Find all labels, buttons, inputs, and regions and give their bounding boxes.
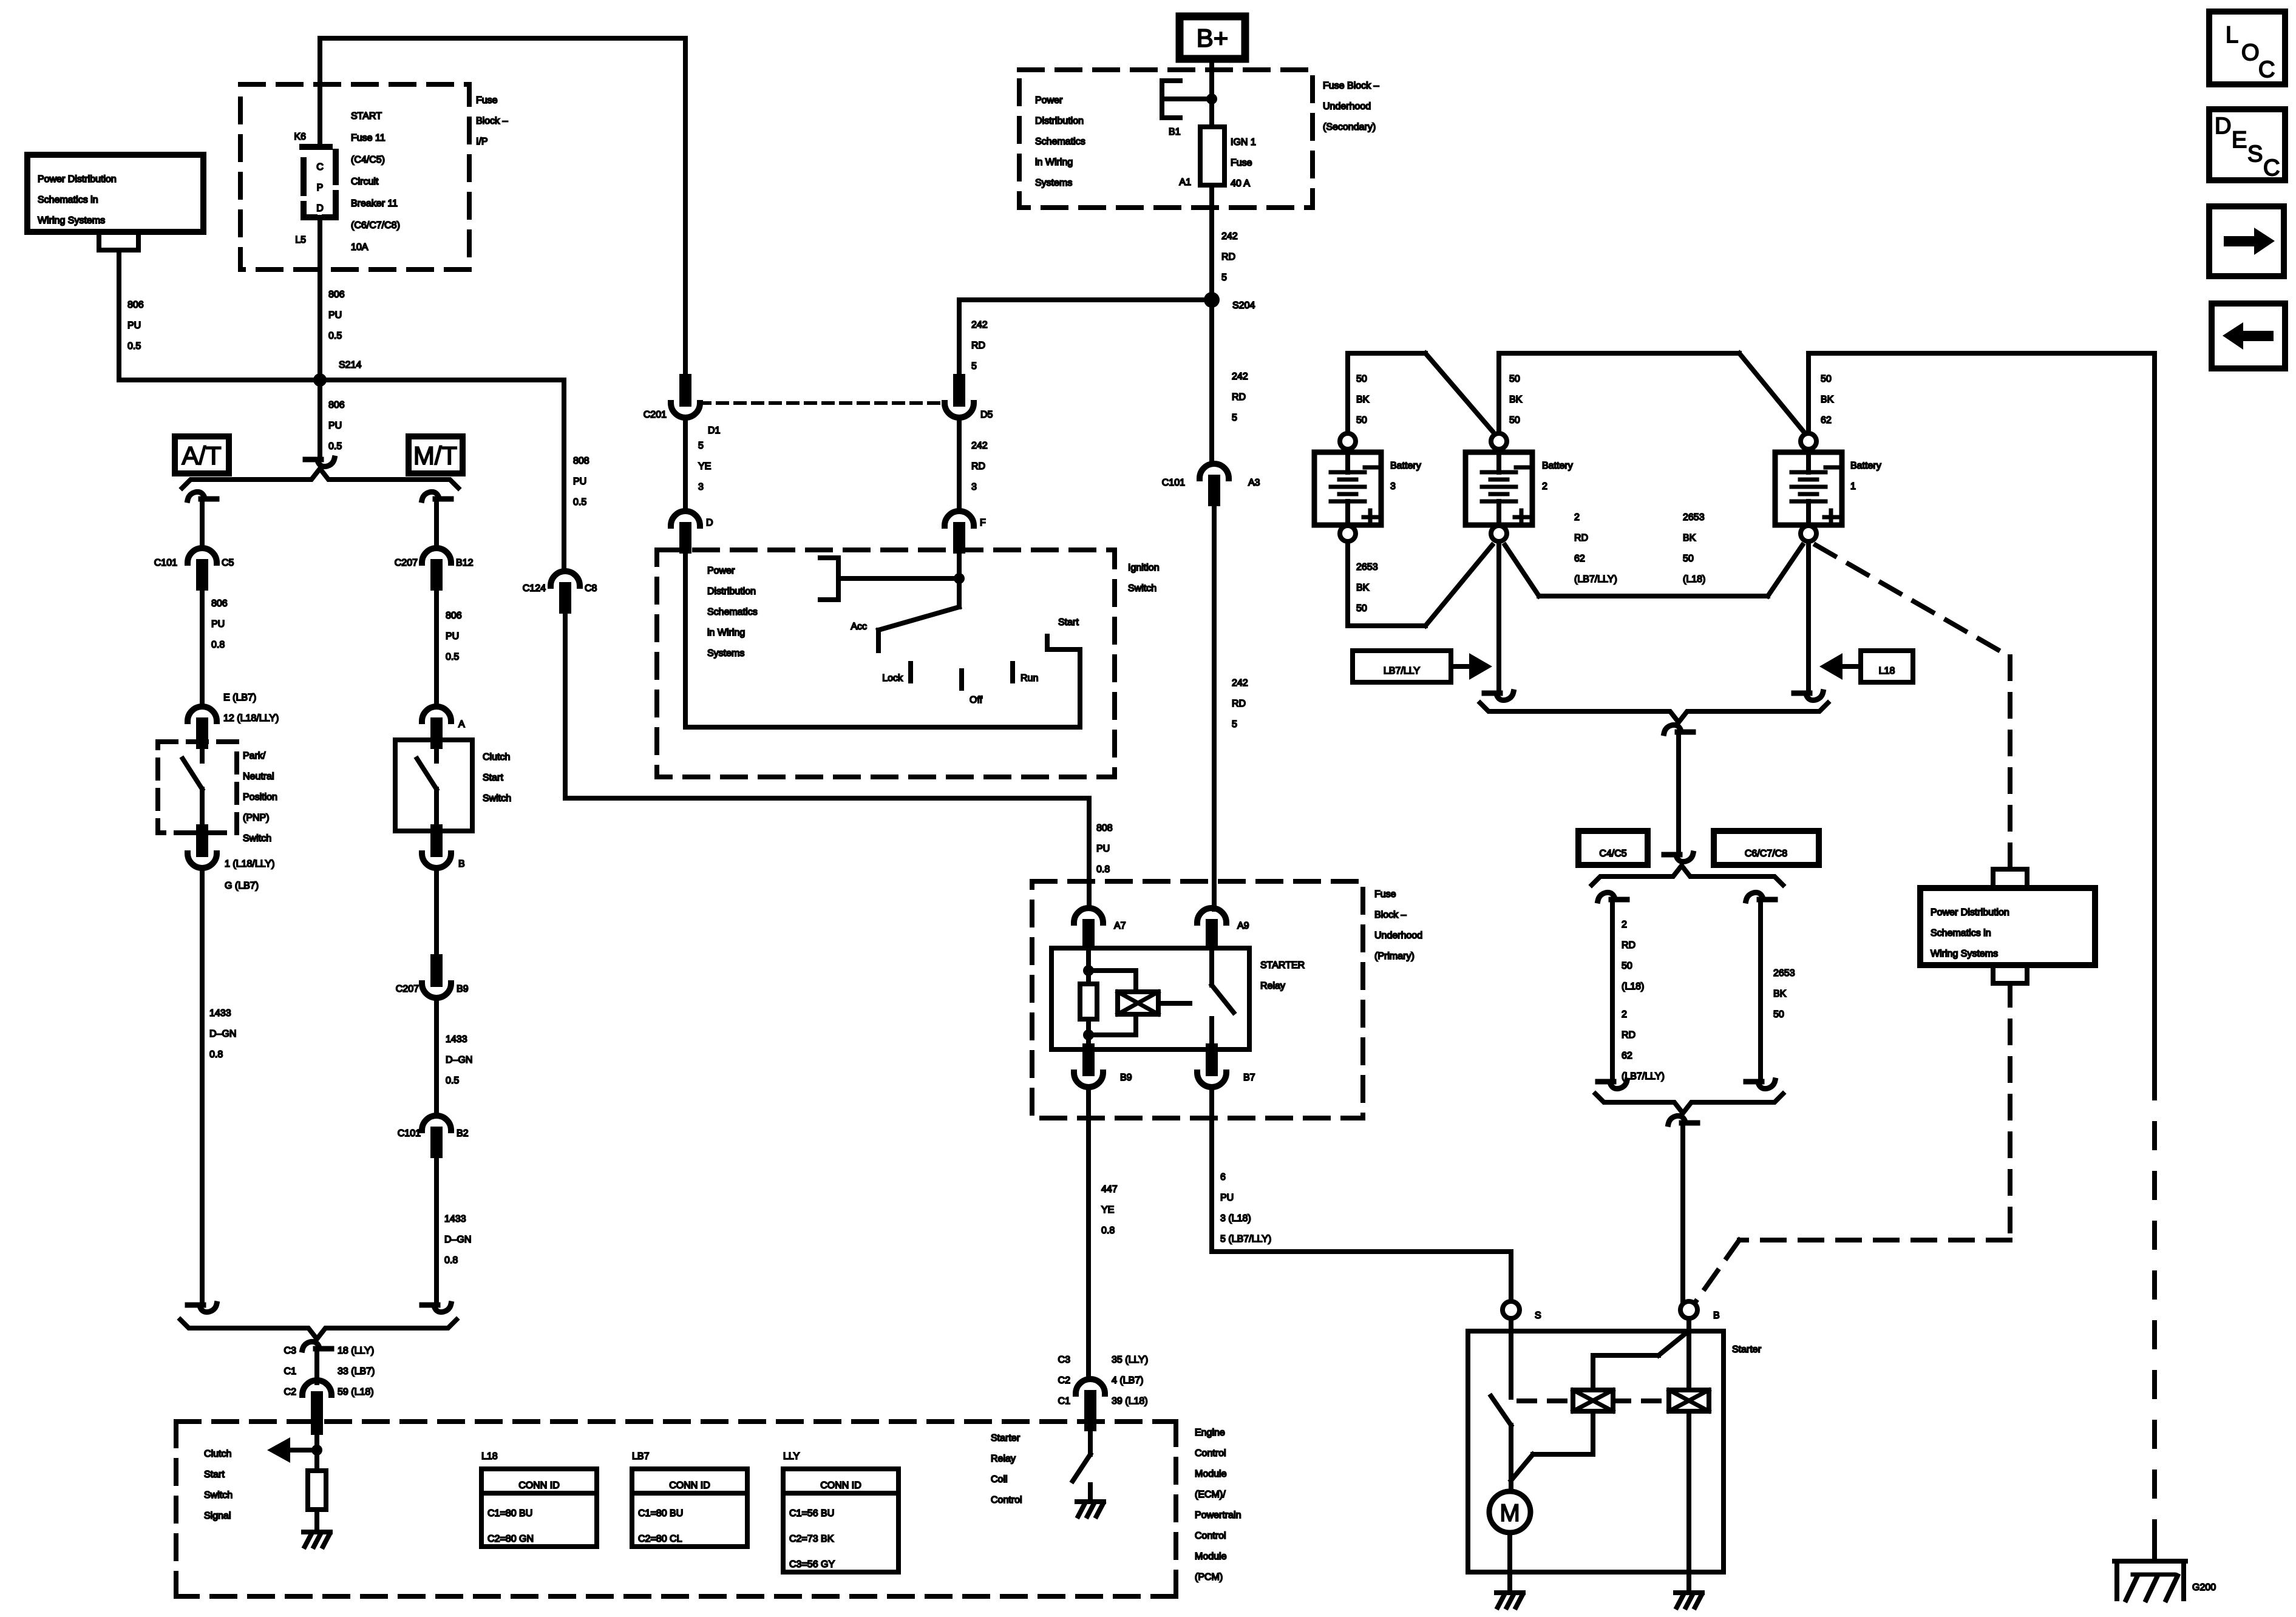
- svg-text:Circuit: Circuit: [351, 177, 379, 187]
- svg-text:Block –: Block –: [476, 116, 508, 126]
- connector pin E (LB7) / 12 (L18/LLY): [188, 707, 217, 721]
- svg-text:(L18): (L18): [1622, 981, 1644, 992]
- svg-text:Systems: Systems: [707, 648, 744, 659]
- wire: battery feed to C4/C5-C6/C7/C8 split: [1676, 734, 1681, 852]
- svg-text:C5: C5: [222, 558, 234, 568]
- wire: 808 PU 0.5 from S214 to C124 C8: [320, 380, 564, 571]
- svg-text:0.5: 0.5: [573, 497, 586, 507]
- svg-text:59 (L18): 59 (L18): [338, 1387, 374, 1397]
- svg-text:START: START: [351, 111, 382, 121]
- svg-text:LB7: LB7: [632, 1451, 650, 1462]
- svg-text:Power: Power: [1035, 95, 1063, 106]
- svg-text:50: 50: [1683, 554, 1694, 564]
- svg-text:Battery: Battery: [1390, 461, 1421, 471]
- svg-text:YE: YE: [1101, 1205, 1114, 1215]
- wire: 1433 D-GN 0.8 PNP to ECM brace: [200, 867, 205, 1303]
- svg-text:Schematics: Schematics: [1035, 137, 1085, 147]
- svg-text:5: 5: [1232, 413, 1237, 423]
- svg-text:5: 5: [1221, 273, 1227, 283]
- svg-text:6: 6: [1220, 1172, 1226, 1182]
- svg-text:B2: B2: [457, 1128, 469, 1139]
- svg-text:C1: C1: [284, 1366, 297, 1377]
- svg-text:PU: PU: [127, 320, 141, 331]
- svg-text:Module: Module: [1195, 1551, 1227, 1562]
- svg-text:50: 50: [1356, 374, 1367, 384]
- svg-text:IGN 1: IGN 1: [1231, 137, 1256, 147]
- svg-text:242: 242: [971, 441, 988, 451]
- connector C207 pin B12: [422, 548, 451, 563]
- svg-text:A3: A3: [1248, 478, 1260, 488]
- wire: top bus from fuse block I/P to connector C201 D1: [320, 38, 685, 381]
- arrow: L18 points to battery 1 wire: [1843, 664, 1861, 669]
- svg-text:B12: B12: [456, 558, 474, 568]
- connector C201 pin D1: [679, 380, 691, 401]
- svg-text:Battery: Battery: [1850, 461, 1881, 471]
- curl: A/T branch wire end at join brace: [188, 1304, 217, 1312]
- svg-text:2653: 2653: [1773, 968, 1795, 978]
- connector pin B7: [1206, 1049, 1218, 1070]
- wire: 806 PU 0.8 to PNP switch: [200, 585, 205, 707]
- svg-text:Control: Control: [991, 1495, 1022, 1505]
- battery 2: [1466, 433, 1532, 541]
- svg-text:Distribution: Distribution: [707, 586, 756, 597]
- box: LB7/LLY tag: [1353, 651, 1451, 682]
- svg-text:3: 3: [971, 482, 977, 492]
- svg-text:CONN ID: CONN ID: [518, 1480, 560, 1491]
- wire: clutch start switch signal inside ECM: [314, 1428, 319, 1450]
- svg-text:Schematics in: Schematics in: [1931, 928, 1991, 938]
- svg-text:Signal: Signal: [204, 1511, 231, 1521]
- wire: 6 PU from B7 to starter S terminal: [1212, 1086, 1511, 1300]
- svg-text:Engine: Engine: [1195, 1428, 1225, 1438]
- svg-text:50: 50: [1356, 415, 1367, 425]
- curl: wire start below join brace: [302, 1341, 331, 1350]
- stub: connector into ECM: [311, 1414, 323, 1429]
- box: Power Distribution Schematics reference (top left): [27, 155, 203, 232]
- wire: switch output along bottom up to pin D: [685, 547, 1080, 727]
- svg-text:0.5: 0.5: [328, 441, 342, 452]
- svg-text:D–GN: D–GN: [444, 1235, 471, 1245]
- connector C3/C2/C1 pins 35/4/39 (starter relay coil control): [1076, 1379, 1105, 1394]
- svg-text:3 (L18): 3 (L18): [1220, 1213, 1251, 1224]
- wire: 447 YE 0.8 from B9 to ECM: [1086, 1086, 1091, 1379]
- svg-text:1433: 1433: [444, 1214, 466, 1224]
- svg-text:C4/C5: C4/C5: [1599, 849, 1626, 859]
- svg-text:806: 806: [127, 300, 144, 310]
- fuse IGN 1 40 A: [1200, 127, 1224, 185]
- connector C101 pin B2: [422, 1116, 451, 1130]
- svg-text:B7: B7: [1243, 1073, 1255, 1083]
- svg-text:BK: BK: [1356, 583, 1370, 593]
- table: LB7 CONN ID: [632, 1451, 747, 1547]
- wire: relay coil branch: [1089, 971, 1136, 1035]
- off-page connector bracket below reference box: [99, 232, 138, 250]
- svg-text:Fuse Block –: Fuse Block –: [1323, 81, 1379, 91]
- svg-text:(L18): (L18): [1683, 574, 1705, 585]
- svg-text:Clutch: Clutch: [204, 1449, 231, 1459]
- svg-text:5: 5: [1232, 719, 1237, 730]
- svg-text:Switch: Switch: [483, 793, 511, 804]
- svg-text:C2=73 BK: C2=73 BK: [789, 1534, 834, 1544]
- wire: starter relay coil control inside ECM: [1088, 1424, 1093, 1454]
- svg-text:12 (L18/LLY): 12 (L18/LLY): [223, 713, 279, 724]
- svg-text:Underhood: Underhood: [1374, 931, 1422, 941]
- svg-text:3: 3: [698, 482, 704, 492]
- junction: relay coil bottom: [1083, 1029, 1094, 1040]
- svg-text:BK: BK: [1356, 395, 1370, 405]
- wire: 808 PU 0.8 from C8 to relay A7: [565, 608, 1089, 908]
- svg-text:808: 808: [573, 456, 589, 466]
- svg-text:(Primary): (Primary): [1374, 951, 1415, 961]
- wire: ignition feed to switch common: [838, 576, 959, 581]
- svg-text:447: 447: [1101, 1184, 1118, 1195]
- tick: Lock position: [908, 663, 913, 681]
- curl: end of C4/C5 feed: [1598, 1080, 1627, 1089]
- svg-text:B9: B9: [1120, 1073, 1132, 1083]
- svg-text:40 A: 40 A: [1231, 178, 1250, 189]
- svg-text:B: B: [458, 859, 465, 869]
- svg-text:L18: L18: [481, 1451, 498, 1462]
- ground: ECM clutch signal: [304, 1532, 330, 1547]
- svg-text:G (LB7): G (LB7): [225, 881, 259, 891]
- box: Fuse Block - Underhood (Secondary) (dashed): [1019, 70, 1313, 208]
- svg-text:Off: Off: [970, 695, 983, 705]
- svg-text:(C6/C7/C8): (C6/C7/C8): [351, 220, 400, 231]
- svg-text:Power Distribution: Power Distribution: [38, 174, 117, 185]
- svg-text:B+: B+: [1197, 24, 1229, 52]
- svg-text:Ignition: Ignition: [1128, 563, 1160, 573]
- splice S214: [313, 373, 327, 387]
- svg-text:0.8: 0.8: [1096, 864, 1110, 875]
- wire: C201 D1 to ignition switch pin D: [683, 417, 688, 511]
- svg-text:Battery: Battery: [1542, 461, 1573, 471]
- svg-text:C2: C2: [1058, 1375, 1071, 1386]
- terminal B of starter: [1680, 1301, 1697, 1318]
- svg-text:0.8: 0.8: [209, 1049, 223, 1060]
- box: Park/Neutral Position switch (dashed): [158, 742, 237, 833]
- svg-text:50: 50: [1509, 374, 1520, 384]
- svg-text:242: 242: [971, 320, 988, 330]
- svg-text:Run: Run: [1021, 673, 1038, 683]
- svg-text:B1: B1: [1169, 127, 1181, 137]
- svg-text:1433: 1433: [446, 1034, 467, 1045]
- svg-text:D: D: [316, 203, 324, 214]
- svg-text:B9: B9: [457, 984, 469, 994]
- svg-text:PU: PU: [573, 476, 586, 487]
- svg-text:Lock: Lock: [882, 673, 903, 683]
- svg-text:Control: Control: [1195, 1448, 1226, 1459]
- svg-text:242: 242: [1221, 231, 1238, 242]
- svg-text:Switch: Switch: [1128, 583, 1156, 594]
- svg-text:A1: A1: [1179, 177, 1191, 188]
- svg-text:Starter: Starter: [1732, 1344, 1762, 1355]
- wire: 242 RD 5 fuse output to S204: [1209, 185, 1214, 294]
- svg-text:Starter: Starter: [991, 1433, 1021, 1443]
- svg-text:S214: S214: [339, 360, 361, 370]
- nav box DESC: [2209, 109, 2285, 180]
- svg-text:0.5: 0.5: [446, 1076, 459, 1086]
- box: C4/C5 tag: [1578, 831, 1648, 865]
- svg-text:C1=80 BU: C1=80 BU: [638, 1508, 683, 1519]
- wire: A/T branch down to C101 C5: [200, 501, 205, 548]
- svg-text:M/T: M/T: [413, 441, 457, 470]
- relay switch blade: [1212, 985, 1234, 1012]
- nav box forward arrow: [2209, 206, 2284, 276]
- nav box back arrow: [2212, 303, 2285, 368]
- svg-text:3: 3: [1390, 481, 1396, 492]
- box: Engine Control Module ECM/PCM (dashed): [176, 1422, 1176, 1596]
- svg-text:STARTER: STARTER: [1260, 960, 1305, 971]
- wire: 2653 BK 50 feed: [1758, 902, 1763, 1079]
- svg-text:RD: RD: [1232, 392, 1246, 402]
- svg-text:PU: PU: [1096, 844, 1110, 854]
- wire: 1433 D-GN between B9 and B2: [434, 997, 439, 1116]
- curl: M/T branch wire end at join brace: [422, 1304, 451, 1312]
- svg-text:RD: RD: [1574, 533, 1588, 543]
- svg-text:(C4/C5): (C4/C5): [351, 155, 385, 165]
- wire: motor to ground: [1507, 1533, 1512, 1590]
- svg-text:Block –: Block –: [1374, 910, 1407, 920]
- wire: hold-in winding to ground: [1686, 1411, 1691, 1590]
- wire: battery 2 positive drop: [1496, 541, 1501, 691]
- dashed linkage: solenoid plunger: [1519, 1398, 1570, 1403]
- wire: M/T branch down to C207 B12: [434, 501, 439, 548]
- wire: coil stub: [1158, 1001, 1174, 1006]
- connector pin B9: [1082, 1049, 1095, 1070]
- box: STARTER relay: [1051, 948, 1249, 1049]
- svg-text:BK: BK: [1683, 533, 1696, 543]
- dashed connector line C201: [700, 401, 945, 405]
- svg-text:C2: C2: [284, 1387, 297, 1397]
- svg-text:S: S: [1535, 1310, 1541, 1321]
- svg-text:5 (LB7/LLY): 5 (LB7/LLY): [1220, 1234, 1271, 1244]
- svg-text:Fuse: Fuse: [1374, 889, 1396, 900]
- svg-text:RD: RD: [971, 341, 985, 351]
- wire: resistor to ground: [314, 1510, 319, 1530]
- svg-text:Clutch: Clutch: [483, 752, 510, 762]
- wire: battery 2 positive to battery 1 positive: [1505, 545, 1802, 596]
- svg-text:L5: L5: [295, 235, 306, 245]
- svg-text:2: 2: [1542, 481, 1547, 492]
- wire: 2 RD 50/62 feed: [1610, 902, 1615, 1079]
- terminal S of starter: [1503, 1301, 1520, 1318]
- table: L18 CONN ID: [481, 1451, 597, 1547]
- svg-text:0.5: 0.5: [328, 331, 342, 341]
- curl: start of C4/C5 feed: [1598, 892, 1627, 901]
- svg-text:C2=80 CL: C2=80 CL: [638, 1534, 682, 1544]
- connector C101 pin A3: [1200, 464, 1229, 478]
- svg-text:0.8: 0.8: [444, 1255, 458, 1266]
- curl: battery 2 wire end at join brace: [1484, 692, 1513, 700]
- ground: starter motor: [1496, 1593, 1523, 1607]
- wire: pull-in winding to motor branch: [1511, 1411, 1593, 1480]
- svg-text:Start: Start: [1058, 617, 1079, 628]
- svg-text:5: 5: [971, 361, 977, 371]
- svg-text:L: L: [2226, 22, 2238, 48]
- connector pin A9: [1197, 908, 1226, 923]
- battery 3: [1314, 433, 1381, 541]
- resistor: ECM clutch signal pull-up: [308, 1471, 326, 1510]
- wire: through relay resistor: [1086, 971, 1091, 1035]
- wire: A7 into relay: [1086, 944, 1091, 971]
- svg-text:Wiring Systems: Wiring Systems: [38, 215, 105, 226]
- svg-text:0.5: 0.5: [127, 341, 141, 351]
- splice S204: [1204, 292, 1220, 308]
- svg-text:in Wiring: in Wiring: [707, 628, 745, 638]
- svg-text:YE: YE: [698, 461, 711, 472]
- junction: relay coil top: [1083, 965, 1094, 976]
- connector C124 pin C8: [551, 571, 580, 586]
- ground: starter solenoid: [1676, 1593, 1702, 1607]
- svg-text:39 (L18): 39 (L18): [1112, 1396, 1148, 1406]
- svg-text:C3: C3: [284, 1346, 297, 1356]
- connector pin A7: [1074, 908, 1103, 923]
- wire: coil bottom to B9: [1086, 1035, 1091, 1051]
- svg-text:Fuse 11: Fuse 11: [351, 133, 385, 143]
- svg-text:33 (LB7): 33 (LB7): [338, 1366, 375, 1377]
- tick: Run position: [1010, 663, 1015, 681]
- svg-text:K6: K6: [294, 132, 306, 142]
- svg-text:806: 806: [328, 400, 345, 410]
- brace: join of PNP and clutch branches into ECM input: [180, 1320, 457, 1339]
- svg-text:808: 808: [1096, 823, 1113, 833]
- starter solenoid switch blade: [1491, 1396, 1511, 1425]
- wire: pin F into switch: [957, 550, 962, 607]
- connector C101 pin C5: [188, 548, 217, 563]
- svg-text:PU: PU: [446, 631, 459, 642]
- curl: wire start below join brace to starter: [1668, 1116, 1697, 1124]
- svg-text:C1=80 BU: C1=80 BU: [487, 1508, 532, 1519]
- svg-text:Neutral: Neutral: [243, 771, 274, 782]
- relay coil winding (box with X): [1118, 992, 1158, 1014]
- box: A/T tag: [175, 436, 229, 473]
- svg-text:4 (LB7): 4 (LB7): [1112, 1375, 1143, 1386]
- ECM driver switch blade: [1073, 1454, 1090, 1481]
- brace: join battery positives: [1480, 703, 1828, 722]
- svg-text:Relay: Relay: [1260, 981, 1285, 991]
- svg-text:BK: BK: [1773, 989, 1787, 999]
- svg-text:1 (L18/LLY): 1 (L18/LLY): [225, 859, 274, 869]
- ignition switch blade to Acc position: [878, 607, 959, 651]
- svg-text:2: 2: [1622, 1009, 1627, 1020]
- connector C3/C1/C2 pins 18/33/59 (ECM clutch signal): [302, 1380, 331, 1395]
- arrow: LB7/LLY points to battery 2 wire: [1451, 664, 1469, 669]
- svg-text:RD: RD: [971, 461, 985, 472]
- svg-text:806: 806: [211, 598, 228, 609]
- solenoid pull-in winding (box with X): [1573, 1390, 1613, 1411]
- curl: battery 1 wire end at join brace: [1794, 692, 1823, 700]
- stub: connector into ECM (relay coil control): [1084, 1414, 1096, 1425]
- svg-text:L18: L18: [1879, 666, 1895, 676]
- svg-text:PU: PU: [328, 421, 342, 431]
- svg-text:RD: RD: [1622, 940, 1635, 951]
- svg-text:Acc: Acc: [851, 622, 867, 632]
- connector pin A of clutch start switch: [422, 707, 451, 721]
- svg-text:C8: C8: [585, 583, 597, 594]
- ground: ECM driver: [1077, 1502, 1104, 1516]
- svg-text:50: 50: [1773, 1009, 1784, 1020]
- curl: start of C6/C7/C8 feed: [1746, 892, 1775, 901]
- svg-text:2: 2: [1574, 512, 1580, 523]
- svg-text:S: S: [2247, 141, 2263, 167]
- wire: battery feed to starter B terminal: [1680, 1125, 1685, 1301]
- svg-text:LLY: LLY: [783, 1451, 800, 1462]
- svg-text:G200: G200: [2192, 1582, 2216, 1593]
- box: Power Distribution Schematics reference (right): [1920, 888, 2095, 965]
- svg-text:242: 242: [1232, 371, 1248, 382]
- svg-text:RD: RD: [1221, 252, 1235, 262]
- svg-text:C: C: [2263, 155, 2280, 181]
- svg-text:35 (LLY): 35 (LLY): [1112, 1355, 1148, 1365]
- svg-text:CONN ID: CONN ID: [820, 1480, 861, 1491]
- solenoid hold-in winding (box with X): [1669, 1390, 1709, 1411]
- curl: wire start below battery join brace: [1664, 725, 1693, 733]
- svg-text:1: 1: [1850, 481, 1856, 492]
- svg-text:D5: D5: [980, 410, 993, 420]
- back arrow glyph: [2223, 322, 2274, 350]
- dashed linkage between windings: [1613, 1398, 1666, 1403]
- svg-text:Relay: Relay: [991, 1454, 1016, 1464]
- wire: battery 1 positive drop: [1806, 541, 1811, 691]
- wire: driver to ground: [1088, 1485, 1093, 1499]
- brace: split into C4/C5 and C6/C7/C8 feeds: [1592, 866, 1783, 885]
- svg-text:C: C: [316, 162, 324, 172]
- wire: 2653 BK 50 battery 3 positive to battery 2 positive: [1348, 541, 1492, 626]
- svg-text:BK: BK: [1509, 395, 1523, 405]
- svg-text:Schematics: Schematics: [707, 607, 758, 617]
- svg-text:0.5: 0.5: [446, 652, 459, 662]
- dashed wire: battery 1 positive to power distribution reference: [1816, 545, 2010, 867]
- dashed wire: reference box to starter B terminal: [1695, 983, 2010, 1303]
- wire: to pull-up resistor: [314, 1450, 319, 1471]
- svg-text:10A: 10A: [351, 242, 369, 253]
- box: Ignition Switch (dashed): [657, 550, 1115, 777]
- battery 1: [1775, 433, 1842, 541]
- nav box LOC: [2209, 12, 2285, 84]
- svg-text:A: A: [458, 719, 465, 730]
- curl: start of A/T branch wire: [188, 492, 217, 500]
- box: C6/C7/C8 tag: [1714, 831, 1819, 865]
- svg-text:(PNP): (PNP): [243, 813, 270, 823]
- svg-text:D–GN: D–GN: [209, 1029, 236, 1039]
- svg-text:C6/C7/C8: C6/C7/C8: [1745, 849, 1787, 859]
- off-page bracket below right reference box: [1993, 965, 2027, 983]
- svg-text:Breaker 11: Breaker 11: [351, 198, 398, 209]
- svg-text:C101: C101: [398, 1128, 421, 1139]
- junction at B1 tap: [1206, 93, 1217, 104]
- svg-text:Power Distribution: Power Distribution: [1931, 907, 2009, 918]
- box: L18 tag: [1861, 651, 1913, 682]
- curl: start of M/T branch wire: [422, 492, 451, 500]
- svg-text:LB7/LLY: LB7/LLY: [1384, 666, 1421, 676]
- svg-text:A7: A7: [1114, 921, 1126, 931]
- svg-text:PU: PU: [1220, 1193, 1234, 1203]
- wire: into ECM clutch signal connector: [314, 1351, 319, 1383]
- svg-text:C3=56 GY: C3=56 GY: [789, 1559, 835, 1570]
- svg-text:Coil: Coil: [991, 1474, 1008, 1485]
- wire: solenoid contact to motor branch: [1509, 1425, 1513, 1480]
- box: M/T tag: [409, 436, 463, 473]
- wire: S terminal into solenoid: [1509, 1318, 1513, 1397]
- svg-text:1433: 1433: [209, 1008, 231, 1019]
- svg-text:in Wiring: in Wiring: [1035, 157, 1073, 168]
- svg-text:Start: Start: [204, 1470, 225, 1480]
- svg-text:50: 50: [1821, 374, 1832, 384]
- svg-text:(Secondary): (Secondary): [1323, 122, 1376, 132]
- svg-text:Switch: Switch: [243, 833, 271, 844]
- power feed B+ tag box: [1180, 16, 1245, 59]
- curl: wire end above split brace: [1664, 853, 1693, 862]
